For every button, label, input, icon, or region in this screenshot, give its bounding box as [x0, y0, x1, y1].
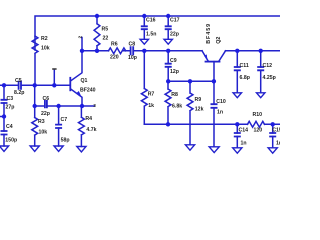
svg-text:3: 3 [93, 103, 96, 108]
svg-text:C16: C16 [146, 17, 156, 23]
svg-text:C10: C10 [216, 99, 226, 105]
svg-text:C4: C4 [6, 124, 13, 130]
svg-text:1n: 1n [217, 109, 223, 115]
svg-text:10k: 10k [41, 46, 50, 52]
svg-text:C14: C14 [239, 127, 249, 133]
svg-text:Q2: Q2 [216, 37, 222, 44]
svg-text:4.25p: 4.25p [263, 75, 276, 81]
svg-text:22p: 22p [170, 32, 179, 38]
svg-text:58p: 58p [61, 137, 70, 143]
svg-text:6.8p: 6.8p [240, 75, 250, 81]
svg-text:2: 2 [78, 35, 83, 38]
svg-text:C12: C12 [263, 63, 273, 69]
svg-text:BF240: BF240 [80, 88, 96, 94]
svg-text:1n: 1n [241, 140, 247, 146]
svg-text:120: 120 [254, 127, 263, 133]
svg-text:Q1: Q1 [81, 78, 88, 84]
svg-text:10p: 10p [128, 55, 137, 61]
svg-text:BF459: BF459 [206, 23, 212, 44]
svg-text:R2: R2 [41, 36, 48, 42]
svg-text:R4: R4 [85, 116, 92, 122]
svg-text:C9: C9 [170, 58, 177, 64]
svg-text:R5: R5 [102, 27, 109, 33]
svg-text:22: 22 [103, 36, 109, 42]
svg-text:C6: C6 [43, 96, 50, 102]
svg-text:R10: R10 [253, 112, 263, 118]
svg-text:C17: C17 [170, 17, 180, 23]
svg-text:C7: C7 [61, 117, 68, 123]
svg-text:C11: C11 [240, 63, 249, 69]
svg-text:150p: 150p [5, 138, 17, 144]
svg-text:220: 220 [110, 55, 119, 61]
svg-text:R7: R7 [148, 92, 155, 98]
svg-text:1n: 1n [276, 140, 280, 146]
svg-text:R6: R6 [111, 41, 118, 47]
svg-text:8.2p: 8.2p [14, 90, 24, 96]
svg-text:R9: R9 [195, 97, 202, 103]
svg-text:R3: R3 [38, 119, 45, 125]
svg-text:C8: C8 [129, 41, 136, 47]
svg-text:C3: C3 [7, 96, 14, 102]
svg-text:4.7k: 4.7k [86, 127, 96, 133]
svg-text:12k: 12k [195, 107, 204, 113]
svg-text:1k: 1k [148, 103, 154, 109]
svg-text:C5: C5 [15, 78, 22, 84]
svg-text:R8: R8 [171, 92, 178, 98]
svg-text:6.8k: 6.8k [172, 104, 182, 110]
svg-text:1.5n: 1.5n [146, 32, 156, 38]
svg-text:27p: 27p [6, 105, 15, 111]
svg-text:22p: 22p [41, 111, 50, 117]
svg-text:C15: C15 [272, 127, 280, 133]
svg-text:12p: 12p [170, 69, 179, 75]
svg-text:10k: 10k [39, 130, 48, 136]
